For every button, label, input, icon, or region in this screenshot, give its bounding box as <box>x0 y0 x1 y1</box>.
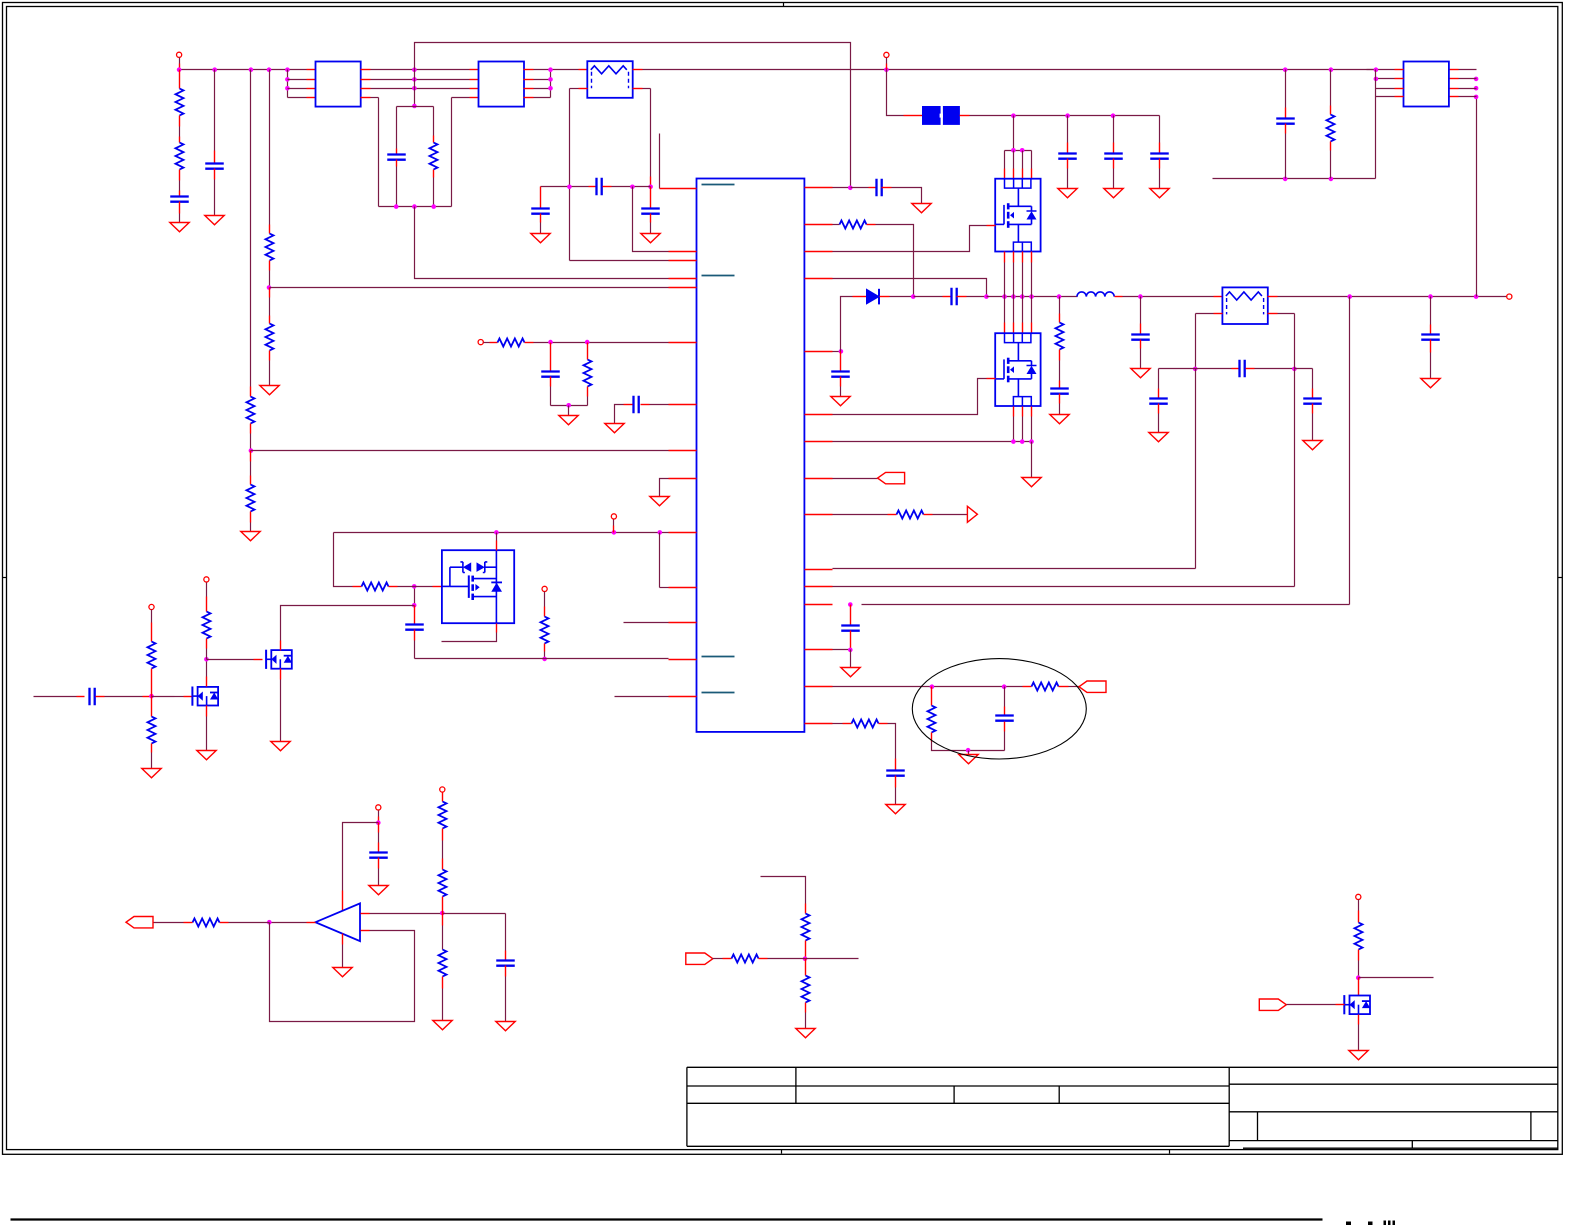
pin lead <box>805 686 833 688</box>
resistor R16 <box>584 360 592 387</box>
wire <box>206 717 208 751</box>
pin lead <box>931 699 933 706</box>
junction <box>1011 294 1016 299</box>
wire <box>1376 88 1395 90</box>
capacitor C12 boot <box>952 288 957 306</box>
wire <box>968 751 970 755</box>
diode D1 boot <box>867 289 880 304</box>
zone tick right <box>1558 577 1563 579</box>
wire <box>615 405 624 424</box>
wire <box>414 587 416 606</box>
wire <box>888 724 896 759</box>
pin lead <box>206 706 208 717</box>
junction <box>1474 77 1479 82</box>
pin lead <box>254 659 263 661</box>
junction <box>548 67 553 72</box>
wire <box>342 945 344 968</box>
wire <box>396 107 398 149</box>
zone tick bottom <box>781 1150 783 1154</box>
wire <box>371 97 379 99</box>
junction <box>412 104 417 109</box>
pin lead <box>805 514 833 516</box>
pin lead <box>805 478 833 480</box>
wire <box>370 913 443 915</box>
pin lead <box>579 88 588 90</box>
wire <box>288 97 307 99</box>
wire <box>433 178 435 207</box>
wire <box>1376 69 1395 71</box>
pin lead <box>442 829 444 841</box>
capacitor C1 <box>170 197 189 202</box>
pin lead <box>1031 252 1033 263</box>
pin lead <box>805 187 833 189</box>
wire <box>270 922 307 924</box>
wire <box>269 271 271 288</box>
ground <box>831 397 850 406</box>
wire <box>833 478 878 480</box>
capacitor C2 <box>205 164 224 169</box>
pin lead <box>850 631 852 641</box>
wire <box>613 520 615 526</box>
wire <box>1312 414 1314 441</box>
wire <box>397 106 434 108</box>
pin lead <box>1449 96 1459 98</box>
pin lead <box>151 623 153 642</box>
inductor L2 <box>1077 292 1114 297</box>
pin lead <box>544 644 546 652</box>
wire <box>151 610 153 623</box>
wire <box>1294 314 1296 369</box>
wire <box>1295 368 1313 370</box>
wire <box>250 462 252 476</box>
junction <box>848 648 853 653</box>
wire <box>534 88 551 90</box>
wire <box>1358 961 1360 978</box>
wire <box>541 186 589 188</box>
wire <box>1196 313 1214 315</box>
pin lead <box>220 922 229 924</box>
resistor R15 <box>498 339 525 347</box>
wire <box>713 958 723 960</box>
wire <box>932 742 1005 751</box>
resistor R19 <box>148 642 156 669</box>
pin lead <box>840 377 842 387</box>
transformer block U3 (box2) <box>479 62 525 107</box>
junction <box>249 67 254 72</box>
ground <box>369 886 388 895</box>
junction <box>376 820 381 825</box>
bottom logo remnants <box>1346 1222 1351 1226</box>
junction <box>285 67 290 72</box>
junction <box>548 340 553 345</box>
wire <box>862 604 1350 606</box>
pin lead <box>1358 986 1360 996</box>
junction <box>1011 439 1016 444</box>
pin lead <box>805 569 833 571</box>
MOSFET Q5 <box>1343 995 1345 1014</box>
pin lead <box>1067 159 1069 169</box>
wire <box>442 841 444 859</box>
wire <box>551 405 588 407</box>
pin lead <box>840 352 842 363</box>
resistor R3 <box>247 397 255 424</box>
wire <box>833 723 843 725</box>
wire <box>1013 116 1015 151</box>
SSR block U5 (box6) <box>442 550 514 623</box>
MOSFET module Q2 <box>995 333 1040 406</box>
pin lead <box>525 342 534 344</box>
junction <box>412 77 417 82</box>
wire <box>544 592 546 607</box>
pin lead <box>1430 340 1432 353</box>
pin lead <box>1285 124 1287 134</box>
pin lead <box>850 605 852 616</box>
pin lead <box>1067 143 1069 154</box>
wire <box>251 450 669 452</box>
pin lead <box>603 186 612 188</box>
wire <box>1349 297 1351 605</box>
wire <box>987 296 1078 298</box>
pin lead <box>151 708 153 717</box>
wire <box>840 387 842 397</box>
resistor R24 <box>439 870 447 897</box>
wire <box>624 622 669 624</box>
pin lead <box>850 641 852 650</box>
junction <box>204 657 209 662</box>
pin lead <box>280 669 282 680</box>
pin lead <box>669 622 697 624</box>
capacitor C25 <box>405 625 424 630</box>
ground <box>170 223 189 232</box>
pin lead <box>179 64 181 70</box>
pin lead <box>805 224 833 226</box>
capacitor C9 <box>531 209 550 214</box>
pin lead <box>442 897 444 914</box>
wire <box>105 696 143 698</box>
pin lead <box>179 81 181 89</box>
junction <box>1374 67 1379 72</box>
pin lead <box>805 649 833 651</box>
wire <box>568 406 570 416</box>
junction SW <box>984 294 989 299</box>
wire <box>229 922 270 924</box>
pin lead <box>179 170 181 181</box>
pin lead <box>805 723 833 725</box>
port <box>440 787 445 792</box>
wire <box>415 658 669 660</box>
junction <box>542 657 547 662</box>
pin lead <box>587 352 589 360</box>
wire <box>371 79 470 81</box>
pin lead <box>1059 314 1061 323</box>
wire <box>1013 151 1015 169</box>
wire <box>442 633 497 642</box>
pin lead <box>1140 324 1142 335</box>
pin lead <box>850 616 852 626</box>
pin lead <box>1214 313 1223 315</box>
resistor R29 <box>1355 923 1363 950</box>
ground <box>1150 189 1169 198</box>
wire <box>1022 297 1024 323</box>
wire <box>914 296 943 298</box>
pin lead <box>805 441 833 443</box>
junction <box>1138 294 1143 299</box>
wire <box>175 696 184 698</box>
wire <box>34 696 77 698</box>
capacitor C16 <box>1149 399 1168 404</box>
resistor R4 <box>247 485 255 512</box>
pin lead <box>1159 143 1161 154</box>
pin lead <box>805 414 833 416</box>
wire <box>396 167 398 207</box>
pin lead <box>805 967 807 976</box>
pin lead <box>987 378 996 380</box>
ground <box>641 234 660 243</box>
pin lead <box>361 69 371 71</box>
pin lead <box>206 677 208 687</box>
junction <box>412 603 417 608</box>
wire <box>890 296 914 298</box>
resistor R28 <box>802 976 810 1003</box>
pin lead <box>544 607 546 617</box>
pin lead <box>361 930 370 932</box>
pin lead <box>913 115 923 117</box>
wire <box>833 568 1196 570</box>
pin lead <box>987 225 996 227</box>
fuse/bead F1 filled blocks <box>922 106 941 125</box>
ground <box>1104 189 1123 198</box>
resistor R13 <box>928 706 936 733</box>
pin lead <box>206 639 208 649</box>
MOSFET Q4 <box>265 650 267 669</box>
pin lead <box>269 225 271 234</box>
capacitor C19 <box>1276 119 1295 124</box>
net tag opamp out <box>126 917 153 928</box>
ground <box>531 234 550 243</box>
pin lead <box>550 343 552 362</box>
wire <box>1376 78 1395 80</box>
pin lead <box>669 404 697 406</box>
pin lead <box>540 214 542 223</box>
wire <box>850 650 852 668</box>
pin lead <box>433 586 442 588</box>
wire <box>1285 134 1287 179</box>
junction <box>177 67 182 72</box>
pin lead <box>361 913 370 915</box>
port <box>376 805 381 810</box>
pin lead <box>895 759 897 771</box>
wire <box>179 58 181 64</box>
wire <box>550 70 552 98</box>
pin lead <box>895 776 897 788</box>
wire <box>650 404 669 406</box>
wire <box>152 696 175 698</box>
wire <box>1213 178 1376 180</box>
pin lead <box>1004 169 1006 179</box>
capacitor C8 <box>597 178 602 196</box>
wire <box>886 58 888 64</box>
junction <box>212 67 217 72</box>
pin lead <box>1004 707 1006 716</box>
resistor R12 <box>1032 683 1059 691</box>
pin lead <box>641 404 650 406</box>
wire <box>179 214 181 223</box>
resistor R25 <box>439 950 447 977</box>
junction at port <box>884 67 889 72</box>
wire <box>214 70 216 151</box>
wire <box>550 387 552 406</box>
junction <box>267 920 272 925</box>
wire <box>442 926 444 950</box>
wire <box>414 641 416 659</box>
pin lead <box>660 188 697 190</box>
pin lead <box>805 604 833 606</box>
wire <box>288 88 307 90</box>
pin lead <box>280 641 282 651</box>
wire <box>452 97 470 99</box>
port <box>1356 894 1361 899</box>
pin lead <box>1059 350 1061 361</box>
wire <box>1195 314 1197 369</box>
wire <box>371 88 470 90</box>
ground <box>1149 433 1168 442</box>
pin lead <box>442 914 444 926</box>
junction <box>1356 975 1361 980</box>
junction <box>412 204 417 209</box>
resistor R9 <box>1056 323 1064 350</box>
wire <box>378 869 380 886</box>
pin lead <box>759 958 768 960</box>
ground <box>796 1029 815 1038</box>
pin lead <box>960 115 970 117</box>
pin lead <box>805 586 833 588</box>
wire <box>833 379 987 415</box>
pin lead <box>179 191 181 197</box>
pin lead <box>587 343 589 352</box>
wire <box>1367 69 1376 71</box>
pin lead <box>1312 389 1314 399</box>
pin lead <box>886 64 888 70</box>
wire <box>379 206 452 208</box>
wire <box>1459 96 1477 98</box>
pin lead <box>342 891 344 912</box>
pin lead <box>414 615 416 625</box>
junction <box>1193 367 1198 372</box>
transformer block U2 (box1) <box>316 62 361 107</box>
pin lead <box>1330 106 1332 115</box>
wire <box>1059 297 1061 314</box>
junction <box>1283 67 1288 72</box>
pin lead <box>1113 143 1115 154</box>
ground <box>650 497 669 506</box>
pin lead <box>361 88 371 90</box>
ground <box>271 742 290 751</box>
pin lead <box>307 97 316 99</box>
wire <box>1031 263 1033 297</box>
pin lead <box>378 817 380 823</box>
pin lead <box>669 450 697 452</box>
pin lead <box>490 342 498 344</box>
pin lead <box>540 198 542 209</box>
wire <box>1158 414 1160 433</box>
capacitor C18 <box>1421 335 1440 340</box>
junction <box>548 86 553 91</box>
ground <box>1303 441 1322 450</box>
capacitor C28 <box>496 961 515 966</box>
ground <box>605 424 624 433</box>
wire <box>1459 78 1477 80</box>
junction <box>285 86 290 91</box>
wire <box>659 134 661 189</box>
junction <box>1374 77 1379 82</box>
pin lead <box>904 115 913 117</box>
pin lead <box>1158 389 1160 399</box>
wire <box>895 788 897 805</box>
pin lead <box>151 697 153 708</box>
pin lead <box>442 977 444 989</box>
pin lead <box>179 202 181 214</box>
pin lead <box>1395 69 1404 71</box>
wire <box>833 224 840 226</box>
junction <box>848 602 853 607</box>
wire <box>833 187 851 189</box>
junction boot <box>911 294 916 299</box>
wire to IC q10 <box>1195 369 1197 569</box>
pin lead <box>250 512 252 523</box>
wire <box>334 533 353 587</box>
junction <box>1020 439 1025 444</box>
wire <box>1158 369 1160 389</box>
pin lead <box>1358 1015 1360 1025</box>
pin lead <box>269 261 271 271</box>
pin lead <box>805 251 833 253</box>
pin lead <box>957 296 967 298</box>
pin lead <box>805 1003 807 1013</box>
junction <box>440 911 445 916</box>
wire <box>534 79 551 81</box>
pin lead <box>143 696 152 698</box>
pin lead <box>669 659 697 661</box>
resistor R21 <box>203 612 211 639</box>
wire <box>415 207 669 279</box>
pin lead <box>880 296 890 298</box>
pin lead <box>669 287 697 289</box>
wire <box>378 98 380 207</box>
capacitor C24 <box>634 396 639 414</box>
pin lead <box>624 404 633 406</box>
junction <box>1474 86 1479 91</box>
capacitor C17 <box>1303 399 1322 404</box>
pin lead <box>1059 394 1061 404</box>
capacitor C10 <box>877 179 882 197</box>
pin lead <box>589 186 597 188</box>
wire <box>415 43 851 188</box>
wire <box>484 342 490 344</box>
wire <box>443 913 506 915</box>
wire <box>179 181 181 191</box>
wire <box>442 989 444 1021</box>
pin lead <box>77 696 85 698</box>
net tag <box>686 953 713 964</box>
wire <box>833 441 1032 443</box>
net tag comp <box>1079 681 1106 692</box>
resistor R11 <box>897 511 924 519</box>
wire <box>1459 88 1477 90</box>
wire <box>1375 70 1377 97</box>
wire <box>833 226 987 252</box>
ground <box>841 668 860 677</box>
wire <box>660 587 669 589</box>
